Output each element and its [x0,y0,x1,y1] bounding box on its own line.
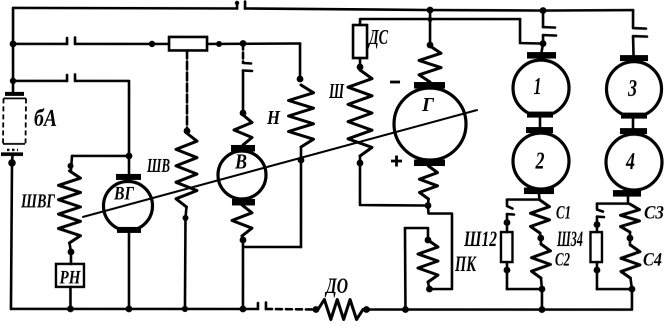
node: ПК bottom [426,286,433,293]
wire: bus to ДО [266,308,316,311]
resistor ПК [418,240,438,282]
node: bus / motor12 branch [539,306,546,313]
machine В (exciter) [218,151,266,199]
wire: top bus right section [245,8,633,10]
node: crossing with ДС feeder [428,17,433,22]
svg-text:ШВГ: ШВГ [20,190,55,212]
wire: switch to В zigzag [242,70,245,113]
brush: motor3 bottom [621,113,647,119]
svg-text:С2: С2 [555,250,570,271]
machine Г (main generator) [394,88,466,160]
resistor С2 [531,244,550,278]
svg-text:Ш12: Ш12 [463,226,497,251]
wire: into motor1 brush [542,44,544,53]
wire: В to bottom bus [242,236,243,309]
brush: В bottom [232,199,255,206]
node: junction wire2/left bus [10,78,16,84]
wire: ПК top link [405,228,428,240]
wire: ПК bottom lead [428,282,430,289]
resistor box (charging resistor) [169,37,207,51]
brush: Г top [414,82,445,89]
wire: join down to bus [507,289,542,310]
wire: Ш bottom to generator + [360,156,428,206]
node: bus / ВГ branch [126,306,133,313]
svg-text:Ш34: Ш34 [556,226,583,251]
relay box РН [56,264,84,287]
wire: bus corner to motor3 switch [632,10,635,28]
node: Ш34 top [594,221,601,228]
node: top of В field resistor [240,110,247,117]
svg-text:Ш: Ш [328,79,344,103]
node: ПК top terminal [425,237,432,244]
motor 1 [513,60,569,116]
switch: motor 3-4 contactor [633,28,647,37]
svg-text:3: 3 [627,76,637,102]
motor 4 [606,134,662,190]
wire: branch to ШВГ [72,155,129,158]
wire: В bottom to Н bottom [243,246,301,249]
node: С1-С2 junction [537,235,544,242]
wire: left vertical bus (top) [12,8,15,92]
wire: ВГ to bottom bus [128,233,131,309]
wire: ДС feeder to motor1 [520,19,543,44]
resistor box Ш34 [590,232,602,262]
wire: common adjustment diagonal [83,110,477,217]
node: top of resistor Н [297,76,304,83]
wire: into ВГ top brush [128,156,131,174]
wire: motor4 to С3 [627,197,630,204]
node: ДО right [363,306,370,313]
svg-text:Н: Н [266,107,281,129]
resistor box ДС [353,25,367,58]
brush: motor4 top [620,128,647,134]
wire: box resistor tap down [186,50,189,130]
node: Ш12 bottom [504,267,511,274]
svg-text:РН: РН [59,267,82,288]
svg-text:1: 1 [534,74,542,100]
wire: left vertical bus (bottom) [11,156,13,309]
wire: branch to Ш12 [507,198,539,201]
node: bus / РН branch [67,306,74,313]
switch: contact on wire 2 [67,74,75,81]
node: top bus / motor 1 branch [540,7,547,14]
node: bottom of Н [298,157,305,164]
wire: Ш34 switch top hook [597,204,603,212]
wire: contactor to motor1 [542,35,545,44]
node: junction wire1/left bus [10,40,17,47]
wire: join down to bus corner [542,289,632,310]
node: top of ШВ [184,128,191,135]
node: junction to exciter В switch [240,40,247,47]
brush: ВГ bottom [117,227,141,233]
switch: top bus knife contact [237,1,245,8]
svg-text:ШВ: ШВ [146,155,170,177]
polarity minus [390,81,400,84]
wire: С2 bottom lead [541,278,542,289]
node: dot after box resistor [216,41,222,47]
wire: top bus down to Г [429,10,432,45]
node: generator + junction [425,202,432,209]
node: bus / В branch [240,306,247,313]
svg-text:В: В [234,149,247,173]
resistor С1 [530,200,549,233]
node: between ДС and Ш [357,64,364,71]
brush: Г bottom [414,160,445,167]
resistor: В armature lead zigzag (top) [234,115,252,145]
switch: contact on bottom bus [258,302,266,309]
brush: motor2 top [526,127,553,133]
wire: bottom bus right [363,308,542,311]
node: Ш12 top [504,219,511,226]
resistor С4 [621,245,640,278]
svg-text:бА: бА [34,106,57,132]
machine ВГ (exciter generator) [103,181,152,230]
wire: into Ш34 box [596,217,599,233]
node: below В [240,237,247,244]
wire: switch down to ВГ [75,81,129,156]
wire: Ш12 switch top hook [507,200,513,209]
node: top of Г series zigzag [427,42,434,49]
svg-text:ПК: ПК [454,251,476,276]
wire: motor2 to С1 [538,194,541,200]
wire: РН to bottom bus [69,287,72,309]
wire: switch to box resistor [75,43,169,46]
wire: Н bottom lead [300,147,303,247]
battery бА [1,92,26,156]
resistor ДО [318,299,363,319]
wire: contactor to motor3 brush [632,36,635,55]
wire: С3 to С4 [629,232,632,245]
wire: ШВГ top lead [71,156,72,170]
wire: down to resistor Н [299,43,302,79]
brush: motor1 top [527,52,556,59]
wire: top bus left section [13,7,237,10]
switch: Ш12 contactor tick [507,213,514,216]
switch: contact on wire 1 [67,37,75,44]
brush: motor2 bottom [524,188,554,195]
wire: ПК left bracket to bus [404,228,407,309]
node: below ШВ [182,215,188,221]
resistor: Г negative lead zigzag [419,46,441,82]
brush: motor4 bottom [613,190,641,197]
resistor box Ш12 [501,232,513,262]
svg-text:ВГ: ВГ [113,183,134,204]
wire: bus to motor1 switch [542,11,545,28]
wire: Ш34 box to join [596,262,599,289]
switch: motor 1-2 contactor [543,27,556,36]
svg-text:С1: С1 [556,203,571,224]
motor 3 [607,62,662,117]
brush: ВГ top [116,174,141,180]
resistor: Г positive lead zigzag [419,166,437,199]
svg-text:2: 2 [535,149,545,175]
node: ВГ top junction [126,153,133,160]
wire: ШВГ to РН [69,243,71,264]
brush: motor3 top [620,55,648,61]
resistor: В bottom zigzag [232,205,252,236]
node: bus / ПК bracket [402,306,409,313]
resistor Ш [348,70,372,156]
node: battery negative lead [8,159,16,167]
wire: into Ш12 box [506,214,509,232]
svg-text:С3: С3 [644,203,664,224]
node: ШВГ top [67,163,73,169]
node: bottom of Ш [357,160,364,167]
node: С2 / Ш12 bottom join [539,286,546,293]
wire: bottom bus left [11,308,258,311]
svg-text:ДС: ДС [368,25,389,49]
svg-text:4: 4 [625,149,635,175]
resistor Н [289,85,314,147]
brush: В top [231,145,255,152]
wire: С4 bottom lead [630,278,632,289]
switch: contact above В [243,63,252,71]
svg-text:Г: Г [421,94,435,116]
wire: ПК right bracket [428,206,452,290]
resistor ШВГ [58,171,80,243]
svg-text:ДО: ДО [325,273,349,298]
wire: motor3-motor4 link [632,118,635,129]
wire: Ш12 box to join [506,262,509,289]
switch: Ш34 contactor tick [597,215,604,218]
polarity plus [391,156,402,167]
resistor ШВ [176,133,197,207]
wire: branch to Ш34 [597,202,628,205]
wire: to + node [427,199,430,206]
wire: ДС to Ш [359,58,362,70]
wire: ДС top feeder [360,19,520,25]
node: dot before box resistor [149,41,155,47]
wire: first switch feeder left [13,43,67,46]
wire: box resistor to resistor Н branch [207,42,300,45]
node: top bus / generator branch [427,7,434,14]
node: motor1 top / ДС feeder [540,40,547,47]
node: ДО left [313,306,320,313]
wire: ШВ to bottom bus [185,207,187,309]
node: С4 / Ш34 bottom join [629,286,636,293]
wire: С1 to С2 [540,233,541,244]
resistor С3 [620,204,639,232]
node: above РН [68,249,75,256]
wire: motor1-motor2 link [539,117,542,128]
brush: motor1 bottom [527,112,553,118]
motor 2 [513,133,569,189]
node: Ш34 bottom [594,267,601,274]
node: С3-С4 junction [627,235,634,242]
wire: second switch feeder left [13,80,67,83]
svg-text:С4: С4 [643,250,662,271]
node: bus / ШВ branch [182,306,188,312]
wire: down from junction to В switch [242,43,245,62]
